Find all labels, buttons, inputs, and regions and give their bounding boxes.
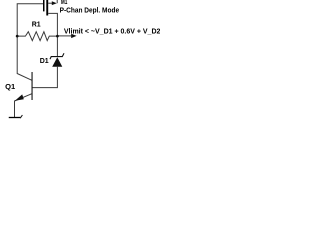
svg-text:M1: M1 (61, 0, 68, 6)
svg-text:Vlimit < ~V_D1 + 0.6V + V_D2: Vlimit < ~V_D1 + 0.6V + V_D2 (64, 28, 160, 35)
resistor R1 (17, 32, 57, 41)
wire gate loop (top-left L from MOSFET gate down left rail) (17, 4, 43, 36)
wire node to D1 cathode (56, 36, 58, 56)
wire output (Vlimit arrow shaft) (57, 35, 71, 37)
transistor Q1 base bar (32, 72, 33, 100)
transistor M1 drain arrow (52, 1, 57, 5)
ground (9, 117, 21, 119)
transistor M1 gate bar (43, 0, 45, 11)
node gate junction dot (16, 35, 19, 38)
diode D1 triangle (52, 57, 62, 67)
svg-text:R1: R1 (32, 22, 41, 29)
svg-text:P-Chan Depl. Mode: P-Chan Depl. Mode (60, 8, 120, 15)
wire D1 anode to Q1 base (32, 67, 57, 88)
svg-text:D1: D1 (40, 58, 49, 65)
wire M1 drain lead (48, 2, 53, 4)
wire M1 drain up (56, 0, 58, 3)
diode D1 (zener) cathode bar (50, 53, 64, 59)
ground tick (20, 115, 22, 118)
svg-text:Q1: Q1 (5, 82, 16, 91)
wire M1 source to node (48, 13, 57, 36)
Vlimit output arrowhead (71, 34, 76, 38)
node Vlimit junction dot (56, 35, 59, 38)
wire collector rail (left rail down to Q1 collector diagonal) (17, 36, 32, 80)
transistor M1 channel bar (46, 0, 48, 16)
transistor Q1 emitter lead (15, 94, 32, 118)
transistor Q1 emitter arrowhead (15, 94, 24, 100)
